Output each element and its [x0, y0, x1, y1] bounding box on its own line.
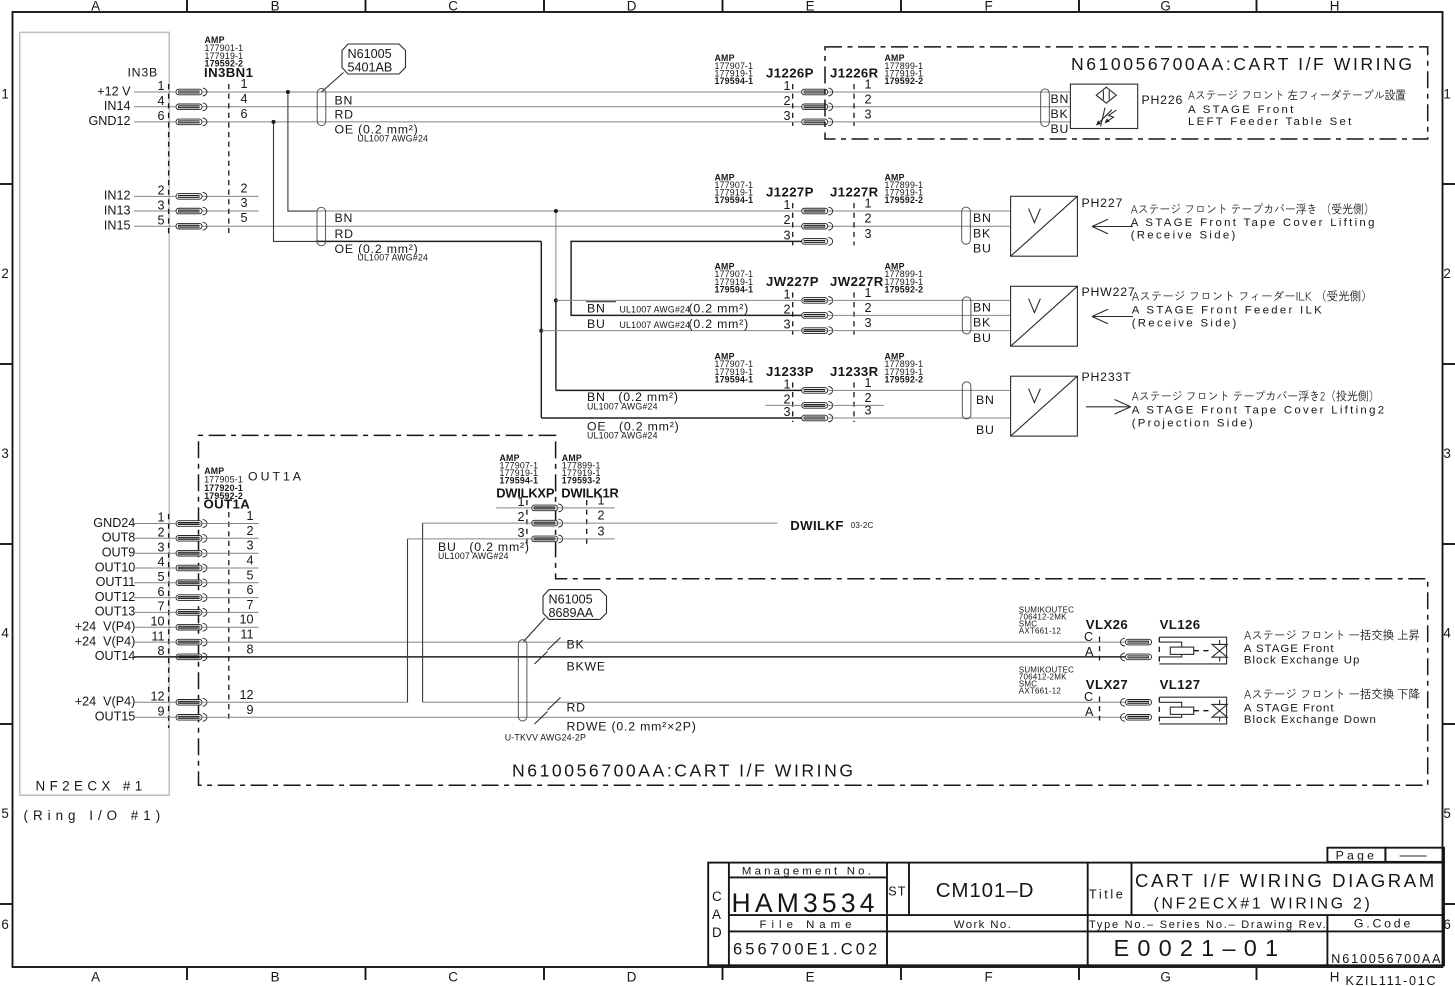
label PHW227 — [1082, 285, 1136, 299]
svg-text:7: 7 — [157, 600, 164, 614]
arrow receive PH227 — [1092, 219, 1133, 234]
svg-text:Work No.: Work No. — [954, 919, 1012, 931]
zone letters bottom — [91, 970, 1342, 985]
svg-text:RD: RD — [335, 107, 354, 121]
zone letters top — [91, 0, 1342, 14]
svg-text:2: 2 — [517, 510, 524, 524]
description PHW227 — [1132, 305, 1324, 330]
svg-text:3: 3 — [241, 196, 248, 210]
svg-text:(0.2 mm²): (0.2 mm²) — [689, 317, 749, 331]
svg-text:BN: BN — [587, 302, 606, 316]
cable sheath PH227 — [962, 207, 971, 244]
cart wiring boundary box bottom — [199, 435, 1428, 785]
svg-text:(0.2 mm²): (0.2 mm²) — [689, 302, 749, 316]
label BN wire group2 — [335, 211, 354, 225]
svg-text:BKWE: BKWE — [567, 660, 606, 674]
label PH227 — [1082, 196, 1124, 210]
svg-text:179594-1: 179594-1 — [500, 476, 539, 486]
svg-text:1: 1 — [157, 511, 164, 525]
svg-text:HAM3534: HAM3534 — [732, 888, 879, 918]
svg-text:N610056700AA: N610056700AA — [1331, 952, 1442, 966]
connector pair DWILKXP / DWILK1R — [496, 453, 619, 545]
title block — [708, 848, 1444, 966]
svg-text:(Receive Side): (Receive Side) — [1131, 230, 1238, 242]
svg-text:Block Exchange Down: Block Exchange Down — [1244, 714, 1377, 726]
svg-text:BK: BK — [1051, 107, 1069, 121]
wire +24&#160;&#160;V(P4) stub — [134, 626, 259, 628]
wire GND12 feed down to J1227 OE — [274, 122, 317, 241]
zone numbers left — [1, 87, 11, 933]
svg-text:4: 4 — [1443, 626, 1453, 641]
svg-text:OUT14: OUT14 — [95, 649, 136, 663]
svg-text:5401AB: 5401AB — [348, 61, 393, 75]
svg-text:+24 V(P4): +24 V(P4) — [75, 634, 136, 648]
svg-text:179593-2: 179593-2 — [562, 476, 601, 486]
wire J1233 pin1 — [556, 389, 1011, 391]
svg-text:A STAGE Front Tape Cover Lifti: A STAGE Front Tape Cover Lifting — [1131, 217, 1377, 229]
svg-text:UL1007 AWG#24: UL1007 AWG#24 — [587, 401, 658, 411]
svg-text:5: 5 — [246, 568, 253, 582]
svg-text:1: 1 — [865, 197, 872, 211]
node +12 V — [97, 84, 131, 98]
block NF2ECX #1 (Ring I/O #1) — [20, 32, 170, 823]
svg-text:OUT13: OUT13 — [95, 605, 136, 619]
svg-text:3: 3 — [246, 539, 253, 553]
svg-text:AXT661-12: AXT661-12 — [1019, 627, 1062, 636]
svg-text:Management No.: Management No. — [742, 866, 874, 878]
node +24 V(P4) pin 12 — [75, 695, 136, 709]
svg-text:BN: BN — [973, 211, 992, 225]
wire JW227 pin3 BU — [541, 330, 1010, 332]
wire GND24 stub — [134, 523, 259, 525]
svg-text:N61005: N61005 — [348, 47, 392, 61]
svg-text:2: 2 — [783, 213, 790, 227]
wire +12V / BN to PH226 pin1 — [134, 91, 1070, 93]
svg-text:BK: BK — [567, 637, 585, 651]
wire +24V pin12 to DWILK BU — [134, 539, 408, 702]
svg-text:1: 1 — [241, 77, 248, 91]
text jp3 — [1132, 290, 1365, 302]
label VL127 — [1160, 677, 1201, 692]
node OUT9 pin 3 — [102, 546, 136, 560]
wire JW227 pin2 BN — [828, 314, 1011, 316]
description VLX27 — [1244, 703, 1377, 727]
svg-text:PH233T: PH233T — [1082, 370, 1132, 384]
svg-text:+24 V(P4): +24 V(P4) — [75, 620, 136, 634]
wire J1227 pin3 jog to JW227 pin2 — [571, 241, 802, 315]
node OUT14 pin 8 — [95, 649, 136, 663]
label RD RDWE leader — [535, 698, 697, 734]
junction dot BN feed — [554, 209, 558, 213]
node GND24 pin 1 — [93, 516, 135, 530]
svg-text:(Ring I/O #1): (Ring I/O #1) — [24, 808, 166, 823]
svg-text:1: 1 — [598, 493, 605, 507]
svg-text:179592-2: 179592-2 — [885, 374, 924, 384]
svg-text:4: 4 — [246, 554, 253, 568]
wire OUT13 stub — [134, 611, 259, 613]
svg-text:A STAGE Front: A STAGE Front — [1244, 643, 1335, 655]
svg-text:A: A — [712, 907, 724, 922]
connector VLX27 — [1019, 666, 1152, 722]
svg-text:BU: BU — [976, 423, 995, 437]
cable sheath group1 — [317, 89, 326, 126]
svg-text:3: 3 — [865, 227, 872, 241]
svg-text:A: A — [1085, 705, 1094, 719]
svg-text:+24 V(P4): +24 V(P4) — [75, 695, 136, 709]
svg-text:03-2C: 03-2C — [851, 521, 874, 530]
photo sensor PH233T — [1011, 376, 1078, 436]
svg-text:179592-2: 179592-2 — [885, 284, 924, 294]
title block texts — [712, 849, 1442, 966]
wire OUT14 to VLX26 A — [134, 656, 1125, 658]
wire OUT11 stub — [134, 582, 259, 584]
cable sheath PHW227 — [962, 297, 971, 334]
svg-text:5: 5 — [157, 213, 164, 227]
arrow receive PHW227 — [1092, 309, 1133, 324]
svg-text:N610056700AA:CART I/F WIRING: N610056700AA:CART I/F WIRING — [1071, 54, 1415, 74]
node IN13 — [104, 203, 131, 217]
svg-text:BU: BU — [1051, 122, 1070, 136]
connector IN3BN1 — [157, 35, 253, 237]
svg-text:A STAGE Front: A STAGE Front — [1244, 703, 1335, 715]
node OUT15 pin 9 — [95, 710, 136, 724]
svg-text:UL1007 AWG#24: UL1007 AWG#24 — [357, 134, 428, 144]
svg-text:1: 1 — [865, 286, 872, 300]
svg-text:Page: Page — [1336, 849, 1378, 863]
connector pair J1227P / J1227R — [715, 172, 924, 245]
wire IN12 stub — [134, 195, 259, 197]
svg-text:3: 3 — [783, 109, 790, 123]
wire IN15 / RD to PH227 pin2 — [134, 225, 1011, 227]
wire OUT15 to VLX27 A — [134, 716, 1125, 718]
wire DWILK pin3 BU — [408, 538, 615, 540]
svg-text:179594-1: 179594-1 — [715, 195, 754, 205]
node OUT12 pin 6 — [95, 590, 136, 604]
label U-TKVV AWG24-2P — [505, 733, 586, 743]
svg-text:+12 V: +12 V — [97, 84, 131, 98]
labels BN BK BU at PH226 — [1051, 92, 1070, 136]
label RD wire group2 — [335, 227, 354, 241]
cable sheath PH226 — [1041, 89, 1050, 127]
svg-text:(Receive Side): (Receive Side) — [1132, 318, 1239, 330]
svg-text:UL1007 AWG#24: UL1007 AWG#24 — [620, 305, 691, 315]
svg-text:LEFT Feeder Table Set: LEFT Feeder Table Set — [1188, 116, 1354, 128]
svg-text:3: 3 — [1443, 446, 1453, 461]
svg-text:12: 12 — [150, 690, 164, 704]
svg-text:2: 2 — [1, 266, 11, 281]
connector OUT1A port label — [248, 470, 304, 484]
svg-text:E: E — [806, 0, 818, 14]
svg-text:F: F — [985, 970, 996, 985]
connector pair JW227P / JW227R — [715, 262, 924, 335]
svg-text:OUT9: OUT9 — [102, 546, 136, 560]
label VL126 — [1160, 617, 1201, 632]
svg-text:8: 8 — [157, 644, 164, 658]
cart wiring boundary box top — [825, 47, 1428, 139]
svg-text:JW227P: JW227P — [766, 274, 819, 289]
description VLX26 — [1244, 643, 1360, 667]
svg-text:1: 1 — [865, 376, 872, 390]
svg-text:CM101–D: CM101–D — [936, 879, 1035, 902]
svg-text:3: 3 — [783, 318, 790, 332]
svg-text:A: A — [1085, 645, 1094, 659]
svg-text:2: 2 — [865, 212, 872, 226]
svg-text:179594-1: 179594-1 — [715, 284, 754, 294]
svg-text:3: 3 — [517, 526, 524, 540]
svg-text:11: 11 — [240, 628, 253, 642]
svg-text:2: 2 — [157, 184, 164, 198]
svg-text:2: 2 — [157, 526, 164, 540]
text jp4 — [1132, 390, 1372, 402]
svg-text:1: 1 — [157, 79, 164, 93]
svg-text:179594-1: 179594-1 — [715, 374, 754, 384]
labels BN BK BU at PH227 — [973, 211, 992, 256]
svg-text:Block Exchange Up: Block Exchange Up — [1244, 655, 1360, 667]
description PH227 — [1131, 217, 1377, 241]
svg-text:3: 3 — [783, 405, 790, 419]
svg-text:BU: BU — [587, 317, 606, 331]
description PH226 — [1188, 104, 1354, 128]
svg-text:2: 2 — [1443, 266, 1453, 281]
valve solenoid VL127 — [1159, 697, 1227, 724]
text jp6 — [1244, 688, 1420, 699]
svg-text:(Projection Side): (Projection Side) — [1132, 418, 1255, 430]
svg-text:C: C — [1084, 690, 1093, 704]
svg-text:RD: RD — [567, 700, 586, 714]
label BU wire JW227 — [587, 317, 749, 331]
svg-text:656700E1.C02: 656700E1.C02 — [733, 941, 880, 959]
svg-text:OUT8: OUT8 — [102, 531, 136, 545]
svg-text:4: 4 — [1, 626, 11, 641]
photo sensor PH226 — [1070, 84, 1137, 128]
svg-text:9: 9 — [157, 705, 164, 719]
svg-text:PHW227: PHW227 — [1082, 285, 1136, 299]
wire DWILK pin2 down to VLX27 C — [423, 523, 1125, 702]
wire +12V feed down to J1227 BN — [288, 92, 316, 211]
svg-text:BK: BK — [973, 226, 991, 240]
wire J1233 pin2 stub — [765, 404, 883, 406]
title N610056700AA:CART I/F WIRING top — [1071, 54, 1415, 74]
wire GND12 / OE to PH226 pin3 — [134, 121, 1070, 123]
label BK BKWE leader — [535, 637, 606, 673]
svg-text:6: 6 — [157, 585, 164, 599]
text jp5 — [1244, 629, 1419, 640]
svg-text:D: D — [712, 925, 724, 940]
svg-text:5: 5 — [1, 806, 11, 821]
svg-text:VL126: VL126 — [1160, 617, 1201, 632]
arrow projection PH233T — [1086, 400, 1131, 415]
node IN15 — [104, 219, 131, 233]
svg-text:179594-1: 179594-1 — [715, 76, 754, 86]
cable sheath group2 — [317, 207, 326, 246]
svg-text:C: C — [712, 889, 724, 904]
svg-text:N61005: N61005 — [549, 592, 593, 606]
svg-text:GND12: GND12 — [89, 114, 131, 128]
node +24 V(P4) pin 11 — [75, 634, 136, 648]
svg-text:BU: BU — [973, 242, 992, 256]
label OE wire group1 — [335, 123, 429, 144]
svg-text:PH226: PH226 — [1142, 93, 1184, 107]
connector IN3B label — [127, 65, 158, 79]
svg-text:VL127: VL127 — [1160, 677, 1201, 692]
svg-text:A STAGE Front: A STAGE Front — [1188, 104, 1296, 116]
svg-text:12: 12 — [239, 688, 253, 702]
svg-text:OUT11: OUT11 — [96, 575, 136, 589]
junction dot GND12 — [272, 120, 276, 124]
svg-text:2: 2 — [865, 301, 872, 315]
svg-text:CART I/F WIRING DIAGRAM: CART I/F WIRING DIAGRAM — [1135, 870, 1437, 891]
wire OUT8 stub — [134, 537, 259, 539]
svg-text:6: 6 — [1, 917, 11, 932]
wire DWILK pin2 to DWILKF — [423, 522, 778, 524]
svg-text:DWILKXP: DWILKXP — [496, 486, 555, 501]
svg-text:BN: BN — [335, 93, 354, 107]
svg-text:File Name: File Name — [760, 919, 857, 931]
svg-text:3: 3 — [598, 524, 605, 538]
svg-text:1: 1 — [1, 87, 11, 102]
svg-text:1: 1 — [783, 377, 790, 391]
wire DWILK pin1 stub — [496, 507, 614, 509]
svg-text:G: G — [1160, 0, 1173, 14]
photo sensor PH227 — [1011, 196, 1078, 256]
svg-text:U-TKVV AWG24-2P: U-TKVV AWG24-2P — [505, 733, 586, 743]
node IN14 — [104, 99, 131, 113]
labels BN BK BU at PHW227 — [973, 301, 992, 346]
drawing code KZIL111-01C — [1346, 974, 1438, 986]
svg-text:UL1007 AWG#24: UL1007 AWG#24 — [587, 431, 658, 441]
wire OUT12 stub — [134, 597, 259, 599]
svg-text:C: C — [1084, 630, 1093, 644]
text jp2 — [1131, 203, 1367, 215]
svg-text:(NF2ECX#1 WIRING 2): (NF2ECX#1 WIRING 2) — [1154, 896, 1373, 913]
svg-text:Title: Title — [1089, 887, 1125, 901]
wire BN J1227 pin1 — [316, 210, 1011, 212]
svg-text:JW227R: JW227R — [830, 274, 884, 289]
svg-text:ST: ST — [888, 884, 906, 898]
svg-text:OUT1A: OUT1A — [204, 497, 251, 512]
svg-text:1: 1 — [783, 287, 790, 301]
svg-text:PH227: PH227 — [1082, 196, 1124, 210]
svg-text:A: A — [91, 970, 103, 985]
wire IN14 / RD to PH226 pin2 — [134, 106, 1070, 108]
svg-text:1: 1 — [517, 495, 524, 509]
node OUT10 pin 4 — [95, 560, 136, 574]
svg-text:GND24: GND24 — [93, 516, 135, 530]
wire BN feed down to JW227/J1233 pin1 — [555, 211, 557, 390]
node +24 V(P4) pin 10 — [75, 620, 136, 634]
wire +24V pin11 to VLX26 C — [134, 641, 1125, 643]
svg-text:4: 4 — [157, 555, 164, 569]
svg-text:B: B — [271, 970, 283, 985]
svg-text:D: D — [627, 970, 639, 985]
svg-text:OUT15: OUT15 — [95, 710, 136, 724]
labels BN BU at PH233T — [976, 393, 995, 437]
svg-text:BK: BK — [973, 316, 991, 330]
svg-text:G: G — [1160, 970, 1173, 985]
svg-text:OUT1A: OUT1A — [248, 470, 304, 484]
svg-text:OUT12: OUT12 — [95, 590, 136, 604]
svg-text:2: 2 — [598, 509, 605, 523]
svg-text:BN: BN — [335, 211, 354, 225]
node OUT11 pin 5 — [96, 575, 136, 589]
svg-text:RD: RD — [335, 227, 354, 241]
svg-text:8: 8 — [246, 642, 253, 656]
svg-text:BN: BN — [1051, 92, 1070, 106]
svg-text:1: 1 — [783, 79, 790, 93]
svg-text:B: B — [271, 0, 283, 14]
connector pair J1226P / J1226R — [715, 53, 924, 126]
svg-text:IN3B: IN3B — [127, 65, 158, 79]
svg-text:6: 6 — [157, 109, 164, 123]
title N610056700AA:CART I/F WIRING bottom — [512, 760, 856, 780]
node GND12 — [89, 114, 131, 128]
svg-text:AXT661-12: AXT661-12 — [1019, 687, 1062, 696]
wire OUT10 stub — [134, 567, 259, 569]
svg-text:E: E — [806, 970, 818, 985]
svg-text:2: 2 — [246, 524, 253, 538]
junction dot +12V — [286, 90, 290, 94]
wire OE feed down to JW227 pin3 / J1233 pin3 — [540, 241, 542, 418]
svg-text:N610056700AA:CART I/F WIRING: N610056700AA:CART I/F WIRING — [512, 760, 856, 780]
svg-text:A STAGE Front Feeder ILK: A STAGE Front Feeder ILK — [1132, 305, 1324, 317]
label DWILKF 03-2C — [790, 518, 873, 533]
description PH233T — [1132, 405, 1387, 430]
svg-text:1: 1 — [783, 198, 790, 212]
svg-text:DWILK1R: DWILK1R — [561, 486, 619, 501]
svg-text:2: 2 — [865, 92, 872, 106]
svg-text:NF2ECX #1: NF2ECX #1 — [36, 779, 147, 794]
svg-text:1: 1 — [246, 509, 253, 523]
svg-text:H: H — [1330, 970, 1342, 985]
label BU wire DWILK — [438, 540, 530, 561]
svg-text:BU: BU — [973, 331, 992, 345]
svg-text:1: 1 — [1443, 87, 1453, 102]
wire IN13 stub — [134, 210, 259, 212]
svg-text:3: 3 — [865, 107, 872, 121]
svg-text:Type No.– Series No.– Drawing: Type No.– Series No.– Drawing Rev. — [1089, 919, 1327, 931]
svg-text:3: 3 — [865, 316, 872, 330]
svg-text:3: 3 — [157, 198, 164, 212]
svg-text:9: 9 — [246, 703, 253, 717]
label OE wire group2 — [335, 242, 429, 263]
valve solenoid VL126 — [1159, 637, 1227, 664]
wire OUT9 stub — [134, 552, 259, 554]
label PH233T — [1082, 370, 1132, 384]
svg-text:2: 2 — [783, 302, 790, 316]
svg-text:A: A — [91, 0, 103, 14]
svg-text:10: 10 — [239, 613, 253, 627]
svg-text:11: 11 — [151, 629, 164, 643]
junction dot JW227 pin1 — [554, 298, 558, 302]
svg-text:7: 7 — [246, 598, 253, 612]
svg-text:C: C — [448, 970, 460, 985]
connector VLX26 — [1019, 606, 1152, 661]
svg-text:6: 6 — [246, 583, 253, 597]
svg-text:D: D — [627, 0, 639, 14]
label PH226 — [1142, 93, 1184, 107]
connector pair J1233P / J1233R — [715, 352, 924, 422]
cable sheath PH233T — [962, 382, 971, 419]
photo sensor PHW227 — [1011, 286, 1078, 346]
cable sheath U-TKVV — [518, 640, 527, 721]
svg-text:UL1007 AWG#24: UL1007 AWG#24 — [357, 253, 428, 263]
svg-text:H: H — [1330, 0, 1342, 14]
junction dot JW227 pin3 — [539, 329, 543, 333]
label RD wire group1 — [335, 107, 354, 121]
svg-text:OUT10: OUT10 — [95, 560, 136, 574]
svg-text:5: 5 — [241, 211, 248, 225]
svg-text:3: 3 — [1, 446, 11, 461]
